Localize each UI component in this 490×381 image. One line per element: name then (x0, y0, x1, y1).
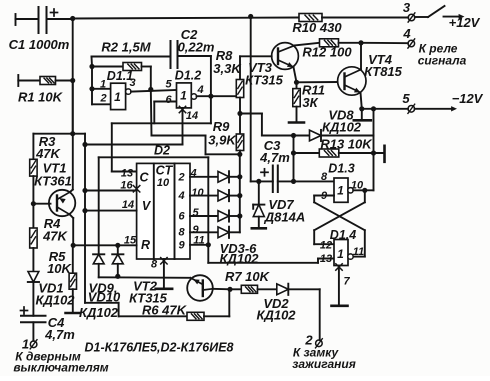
label VT4 (368, 52, 393, 67)
label VD7 (268, 197, 294, 212)
gate D1.3 symbol 1 (337, 184, 344, 198)
svg-text:4: 4 (189, 167, 196, 179)
wire D2 output row 4 (190, 231, 218, 233)
svg-text:+12V: +12V (449, 15, 481, 30)
pin 10 label D1.3 (351, 180, 364, 192)
counter D2 box (137, 163, 190, 259)
terminal 4 (408, 39, 415, 48)
pin 15 label D2 (124, 235, 137, 247)
wire C1 left lead (16, 18, 39, 20)
wire VD8 cathode to -12V rail (321, 109, 374, 136)
label R7 10K (225, 269, 271, 284)
junction R8/R9 (237, 111, 242, 116)
wire R12 to VT4 node (339, 42, 362, 44)
wire R5 bottom lead (72, 289, 74, 312)
wire D2 pin11 row (190, 244, 208, 246)
wire R7 to VD2 (258, 288, 277, 290)
label VD1 (38, 281, 63, 296)
wire VD2 to terminal 2 (288, 289, 319, 340)
svg-text:5: 5 (402, 91, 410, 106)
wire R13 right lead (339, 152, 384, 154)
junction VD10 cathode (115, 243, 120, 248)
wire D1.2 output to R8 bottom (197, 95, 240, 97)
transistor VT4 (338, 67, 366, 95)
pin 6 label D1.2 (165, 94, 172, 106)
arrow to +12V (444, 14, 465, 19)
arrow to -12V (415, 106, 457, 111)
ground VT4 emitter (354, 119, 371, 122)
wire C3 left lead (259, 180, 273, 182)
wire column to x85 (73, 134, 85, 303)
label VD9 (89, 281, 118, 296)
wire VT3 emitter to VT4 base (294, 67, 297, 82)
junction D1.3 out (362, 188, 367, 193)
wire x85 column to R6 row (85, 303, 119, 317)
svg-text:11: 11 (353, 246, 364, 258)
label R12 100 (302, 45, 352, 60)
junction VD8 rail (371, 106, 376, 111)
svg-text:3: 3 (129, 77, 135, 89)
resistor R13 (319, 149, 339, 157)
pin 3 label D1.1 (129, 77, 135, 89)
label C4 (48, 315, 65, 330)
transistor VT1 (49, 190, 75, 216)
wire pin 2 of D1.1 (92, 103, 111, 105)
resistor R8 (236, 80, 243, 98)
svg-text:3,9K: 3,9K (208, 133, 237, 148)
junction R11 top (294, 80, 299, 85)
diode VD5 (218, 210, 229, 221)
junction diode anodes (115, 274, 120, 279)
pin label 4 D2 row 1 (189, 167, 196, 179)
pin 5 label D1.2 (165, 79, 172, 91)
label VD2 (263, 296, 289, 311)
wire VT1 emitter up (70, 81, 73, 193)
pin 14 label D1.2 (186, 110, 198, 122)
pin 16 label D2 (120, 180, 133, 192)
wire D1.3 pin9 (314, 196, 334, 203)
wire VD10 anode down (117, 264, 119, 276)
pin 8 mark D2 (161, 258, 167, 264)
junction R13 riser (371, 150, 376, 155)
wire D2 output row 1 (190, 176, 218, 178)
wire left column down (72, 19, 74, 134)
wire +12V top rail (73, 18, 299, 19)
label R13 10K (320, 137, 373, 152)
junction pin1 (89, 86, 94, 91)
svg-text:5: 5 (165, 79, 172, 91)
op-amp gate D1.1 (111, 83, 126, 109)
wire R3 to base node (32, 176, 34, 204)
wire R8 bottom (239, 98, 241, 114)
wire node A to VD8 route (240, 114, 310, 136)
label VT1 type (34, 174, 72, 189)
label R4 value (42, 229, 68, 244)
label D1.2 (175, 69, 201, 83)
wire R4 to VD1 (32, 248, 34, 272)
wire VD3 cathode (229, 176, 240, 178)
caption IC types (85, 341, 234, 355)
svg-text:сигнала: сигнала (418, 54, 467, 68)
D2 out 4 label (177, 190, 184, 202)
pin label 5 D2 row 3 (192, 207, 199, 219)
svg-text:R: R (141, 238, 150, 252)
diode VD2 (277, 284, 289, 295)
wire R10 to terminal 3 (322, 17, 408, 19)
svg-text:КД102: КД102 (219, 251, 259, 266)
svg-text:4: 4 (196, 84, 203, 96)
junction pin16 line (82, 188, 87, 193)
ground R5 (66, 312, 81, 315)
gate D1.1 symbol 1 (114, 90, 121, 104)
label R4 (44, 216, 61, 231)
wire +12V drop to C3 (251, 17, 259, 182)
D2 out 9 label (178, 239, 185, 251)
wire D2 pin16 (85, 190, 137, 192)
node D1.1 input (89, 64, 94, 69)
svg-text:КТ315: КТ315 (245, 73, 284, 88)
wire VD1 to C4 (32, 282, 34, 316)
label R9 (213, 119, 230, 134)
pin 2 label D1.1 (99, 93, 106, 105)
label D2 (154, 144, 170, 158)
svg-text:0,22m: 0,22m (178, 40, 215, 55)
D2 out 2 label (177, 171, 184, 183)
wire VD4 cathode (229, 195, 240, 197)
junction C3 left (256, 179, 261, 184)
wire VD9 anode down (98, 264, 100, 278)
D2 V label (142, 199, 152, 213)
label R6 47K (142, 303, 188, 318)
wire C3 right lead (278, 180, 294, 182)
label terminal 5 (402, 91, 410, 106)
resistor R1 (40, 77, 56, 85)
pin 1 label D1.1 (100, 79, 106, 91)
wire VT4 collector up (360, 43, 362, 70)
svg-text:8: 8 (151, 259, 158, 271)
svg-text:14: 14 (122, 199, 134, 211)
label VT2 type (129, 291, 168, 306)
label VD3-6 type (219, 251, 259, 266)
junction node B (148, 87, 153, 92)
wire clock line to D2 pin13 (112, 96, 211, 171)
wire R11 to ground (296, 107, 298, 122)
pin 14 label D2 (122, 199, 134, 211)
switch blade to +12V (415, 6, 445, 17)
label R1 10K (18, 90, 64, 105)
wire C4 to terminal 1 (32, 322, 34, 341)
wire R7 left lead (230, 288, 241, 290)
svg-text:1: 1 (100, 79, 106, 91)
wire R11 top lead (296, 82, 298, 88)
wire R6 to R7 node (204, 291, 229, 316)
wire VT1 base row (33, 203, 50, 205)
junction C3 right (291, 179, 296, 184)
wire R2 left lead (92, 66, 123, 68)
wire pin11 to D1.4 pin13 (208, 245, 334, 263)
svg-text:D1-К176ЛЕ5,D2-К176ИЕ8: D1-К176ЛЕ5,D2-К176ИЕ8 (85, 341, 234, 355)
label C3 (264, 138, 281, 153)
junction R1/column (70, 78, 75, 83)
bubble D1.3 output (348, 188, 353, 193)
pin 16 mark D2 (133, 186, 139, 192)
label R9 value (208, 133, 237, 148)
svg-text:9: 9 (178, 239, 185, 251)
caption door switches 1 (15, 350, 81, 364)
wire VD7 to ground (258, 217, 260, 228)
svg-text:1: 1 (114, 90, 121, 104)
junction R9 bottom (237, 152, 242, 157)
label terminal 4 (402, 26, 411, 41)
pin 13 label D1.4 (320, 253, 332, 265)
pin label 9 D2 row 4 (192, 224, 199, 236)
wire to D1.3 pin8 (294, 180, 335, 182)
svg-text:3,3K: 3,3K (213, 61, 242, 76)
svg-text:D1.3: D1.3 (328, 162, 354, 176)
wire to D1.4 pin12 (314, 230, 334, 244)
terminal 5 (408, 104, 415, 113)
svg-text:3К: 3К (302, 95, 318, 110)
wire VD7 top lead (258, 181, 260, 204)
caption ignition lock 1 (293, 346, 340, 360)
D2 out 8 label (178, 226, 185, 238)
pin 12 label D1.4 (320, 240, 332, 252)
wire R6 row (119, 315, 187, 317)
gate D1.2 symbol 1 (180, 89, 187, 103)
svg-text:2: 2 (177, 171, 184, 183)
svg-text:Д814А: Д814А (264, 210, 305, 225)
svg-text:R12 100: R12 100 (302, 45, 352, 60)
wire -12V node to ground (361, 109, 363, 120)
wire R3 top row (33, 134, 72, 160)
wire VT2 collector to node (213, 288, 231, 291)
resistor R5 (69, 273, 76, 289)
svg-text:зажигания: зажигания (292, 357, 356, 371)
junction R13 left (291, 150, 296, 155)
svg-text:D1.2: D1.2 (175, 69, 201, 83)
svg-text:6: 6 (165, 94, 172, 106)
resistor R9 (236, 134, 243, 151)
pin 7 mark D1.4 (336, 264, 342, 270)
wire crossover pin11 to VD9 (99, 157, 209, 254)
junction VT1 base (31, 201, 36, 206)
diode VD9 (93, 254, 104, 263)
svg-text:3: 3 (403, 0, 411, 15)
zener diode VD7 (253, 205, 264, 217)
terminal 1 (30, 340, 37, 349)
capacitor C3 (261, 166, 278, 193)
wire VT4 emitter down (361, 93, 362, 109)
wire VD8/R13 riser (373, 136, 375, 191)
svg-text:КД102: КД102 (79, 305, 119, 320)
junction C1/top rail (70, 16, 75, 21)
junction R7 node (227, 287, 232, 292)
pin 13 label D2 (121, 168, 133, 180)
junction pin14V line (82, 208, 87, 213)
wire VD3-6 common column (239, 154, 241, 232)
label R11 value (302, 95, 318, 110)
svg-text:−12V: −12V (452, 91, 484, 106)
junction VT1 collector (71, 243, 76, 248)
svg-text:КД102: КД102 (322, 120, 362, 135)
caption relay 1 (419, 42, 458, 56)
label R2 1,5M (101, 40, 151, 55)
bubble D1.2 output (191, 94, 196, 99)
label D1.1 (107, 69, 133, 83)
transistor VT2 (187, 275, 213, 301)
wire VT1 collector down (70, 215, 73, 246)
svg-text:4,7m: 4,7m (44, 327, 75, 342)
svg-text:4,7m: 4,7m (259, 150, 290, 165)
label VD7 type (264, 210, 305, 225)
junction VD5 row (237, 213, 242, 218)
resistor R6 (187, 312, 204, 320)
svg-text:КТ361: КТ361 (34, 174, 72, 189)
wire D1.4 pin7 to ground (338, 266, 340, 306)
D2 10 label (157, 177, 170, 189)
caption relay 2 (418, 54, 467, 68)
wire VD6 cathode (229, 231, 240, 233)
svg-text:C: C (139, 171, 149, 185)
svg-text:1: 1 (337, 247, 344, 261)
wire R9 top lead (239, 114, 241, 135)
wire R13 left lead (294, 152, 320, 154)
wire D1.4 out riser (352, 230, 365, 256)
bubble D1.4 output (348, 254, 353, 259)
svg-text:D2: D2 (154, 144, 170, 158)
svg-text:6: 6 (178, 211, 185, 223)
junction pin14 line (82, 142, 87, 147)
transistor VT3 (272, 43, 299, 70)
resistor R10 (299, 14, 322, 22)
label terminal 2 (304, 333, 313, 348)
diode VD8 (310, 130, 322, 141)
wire R2 right to output node (142, 67, 151, 90)
ground D2 pin8 (156, 287, 173, 290)
junction -12V node (359, 106, 364, 111)
pin label 10 D2 row 2 (191, 187, 204, 199)
junction node A (208, 94, 213, 99)
label VD2 type (256, 308, 296, 323)
ground D1.4 pin7 (332, 304, 348, 307)
terminal 3 (408, 13, 415, 22)
label D1.4 (330, 228, 356, 242)
svg-text:12: 12 (320, 240, 332, 252)
ground R11 (289, 121, 304, 124)
wire D2 pin14 V (85, 210, 137, 212)
svg-text:1: 1 (337, 184, 344, 198)
svg-text:R2 1,5M: R2 1,5M (101, 40, 151, 55)
wire D1.3 output (353, 189, 373, 191)
label terminal 3 (403, 0, 411, 15)
svg-text:выключателям: выключателям (13, 361, 108, 375)
bubble D1.1 output (126, 89, 131, 94)
svg-text:13: 13 (320, 253, 332, 265)
resistor R2 (123, 63, 142, 71)
wire D2 output row 3 (190, 215, 218, 217)
label C3 value (259, 150, 290, 165)
wire R9 bottom lead (239, 151, 241, 155)
cross-coupling wires RS latch (314, 202, 365, 230)
junction VD4 row (237, 193, 242, 198)
wire D1.2 pin14 down-left (85, 108, 183, 145)
pin 14 mark D1.2 (179, 106, 185, 112)
svg-text:8: 8 (321, 171, 328, 183)
caption door switches 2 (13, 361, 108, 375)
wire D2 pin15 R row (73, 244, 136, 246)
label VD10 (88, 290, 121, 305)
D2 R label (141, 238, 150, 252)
wire R1 to node (56, 80, 73, 82)
wire anodes to VT2 base (99, 276, 190, 279)
label C1 1000m (9, 37, 70, 52)
wire VT3 collector to R12 (295, 43, 320, 46)
svg-text:КТ815: КТ815 (364, 64, 403, 79)
wire VT4 base row (297, 81, 338, 83)
label -12V (452, 91, 484, 106)
label VD1 type (35, 293, 75, 308)
svg-text:47K: 47K (35, 146, 61, 161)
ground R13 (383, 146, 386, 162)
junction VD8 anode riser (291, 133, 296, 138)
D2 C label (139, 171, 149, 185)
resistor R3 (30, 159, 37, 176)
label R5 (49, 249, 66, 264)
label R8 (216, 48, 233, 63)
label R3 value (35, 146, 61, 161)
svg-text:4: 4 (177, 190, 184, 202)
svg-text:КД102: КД102 (35, 293, 75, 308)
label R8 value (213, 61, 242, 76)
pin 8 label D1.3 (321, 171, 328, 183)
svg-text:R6 47K: R6 47K (142, 303, 188, 318)
label R5 value (47, 261, 72, 276)
wire VD10 cathode lead (117, 245, 119, 254)
capacitor C2 (171, 41, 178, 68)
svg-text:10: 10 (191, 187, 204, 199)
junction rail drop (248, 14, 253, 19)
resistor R7 (241, 285, 257, 293)
svg-text:5: 5 (192, 207, 199, 219)
pin 8 label D2 (151, 259, 158, 271)
wire VD5 cathode (229, 215, 240, 217)
capacitor C1 (39, 7, 58, 33)
svg-text:КД102: КД102 (256, 308, 296, 323)
junction R3 top (70, 131, 75, 136)
diode VD4 (218, 190, 229, 201)
wire pin 1 of D1.1 (92, 88, 111, 90)
label R3 (39, 134, 56, 149)
label VT4 type (364, 64, 403, 79)
junction pin11 riser (206, 242, 211, 247)
label VT3 (248, 60, 273, 75)
terminal 2 (316, 339, 323, 348)
svg-text:2: 2 (99, 93, 106, 105)
capacitor C4 (21, 307, 46, 322)
wire R1 left lead (18, 80, 40, 82)
ground VD7 (252, 227, 266, 230)
label VD8 type (322, 120, 362, 135)
resistor R11 (293, 89, 300, 107)
label C4 value (44, 327, 75, 342)
label +12V (449, 15, 481, 30)
svg-text:1: 1 (180, 89, 187, 103)
terminal stub R1 left (17, 75, 19, 86)
wire R8 top to VT3 base (240, 56, 272, 79)
label VT1 (43, 161, 67, 176)
label D1.3 (328, 162, 354, 176)
diode VD6 (218, 227, 229, 238)
